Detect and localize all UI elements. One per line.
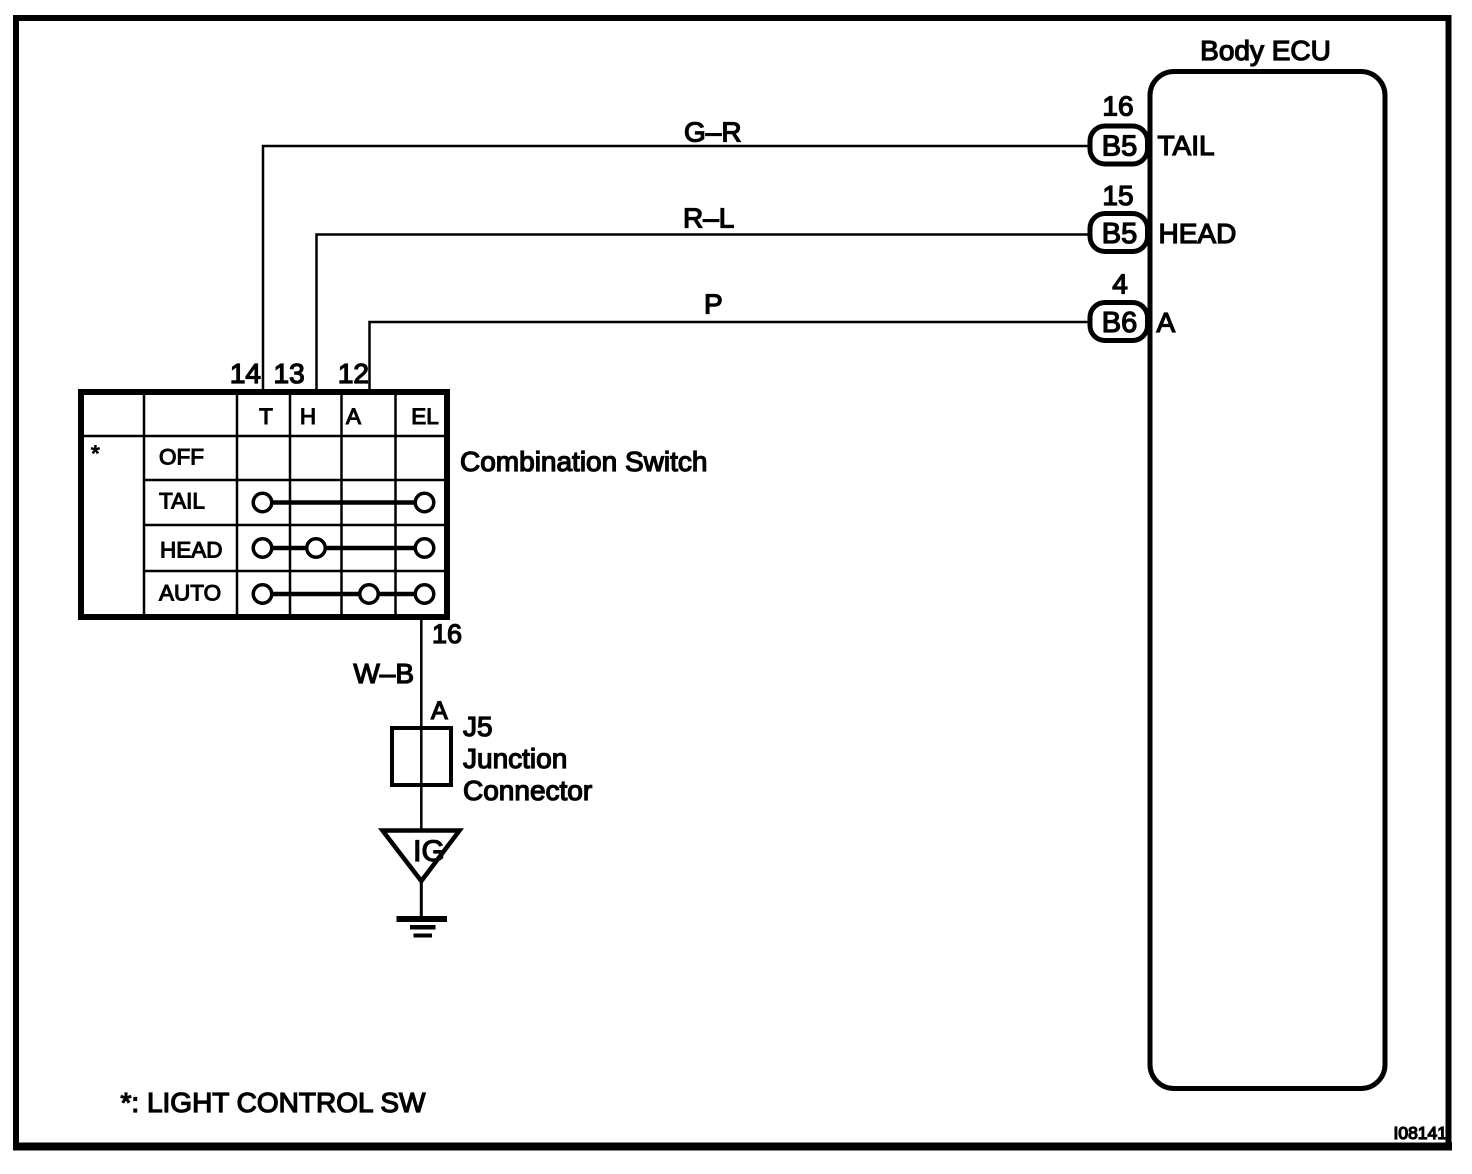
svg-text:HEAD: HEAD bbox=[160, 538, 223, 563]
svg-text:R–L: R–L bbox=[683, 202, 734, 233]
svg-text:Body ECU: Body ECU bbox=[1200, 35, 1331, 66]
svg-text:T: T bbox=[259, 404, 273, 429]
svg-text:B5: B5 bbox=[1102, 218, 1137, 250]
svg-text:TAIL: TAIL bbox=[159, 489, 205, 514]
svg-text:Connector: Connector bbox=[463, 775, 592, 806]
svg-text:*: LIGHT CONTROL SW: *: LIGHT CONTROL SW bbox=[121, 1087, 426, 1118]
svg-text:Junction: Junction bbox=[463, 743, 567, 774]
svg-text:*: * bbox=[91, 441, 100, 466]
svg-text:EL: EL bbox=[411, 404, 439, 429]
svg-text:P: P bbox=[704, 289, 723, 320]
svg-text:I08141: I08141 bbox=[1393, 1123, 1447, 1143]
svg-text:Combination Switch: Combination Switch bbox=[460, 446, 707, 477]
svg-text:A: A bbox=[1157, 307, 1176, 338]
svg-text:G–R: G–R bbox=[684, 117, 742, 148]
svg-text:12: 12 bbox=[338, 358, 369, 389]
svg-text:HEAD: HEAD bbox=[1159, 218, 1237, 249]
svg-text:IG: IG bbox=[413, 835, 445, 868]
svg-text:13: 13 bbox=[274, 358, 305, 389]
svg-text:W–B: W–B bbox=[353, 658, 414, 689]
svg-text:AUTO: AUTO bbox=[159, 581, 221, 606]
svg-text:15: 15 bbox=[1102, 180, 1133, 211]
svg-text:TAIL: TAIL bbox=[1158, 130, 1215, 161]
svg-text:14: 14 bbox=[230, 358, 261, 389]
svg-text:B5: B5 bbox=[1102, 131, 1137, 163]
svg-text:J5: J5 bbox=[463, 711, 493, 742]
svg-text:16: 16 bbox=[432, 619, 462, 649]
svg-text:A: A bbox=[346, 404, 361, 429]
svg-text:A: A bbox=[431, 697, 448, 725]
svg-text:4: 4 bbox=[1112, 269, 1128, 300]
svg-text:H: H bbox=[300, 404, 316, 429]
svg-text:OFF: OFF bbox=[159, 445, 204, 470]
svg-text:16: 16 bbox=[1102, 91, 1133, 122]
svg-text:B6: B6 bbox=[1102, 307, 1137, 339]
